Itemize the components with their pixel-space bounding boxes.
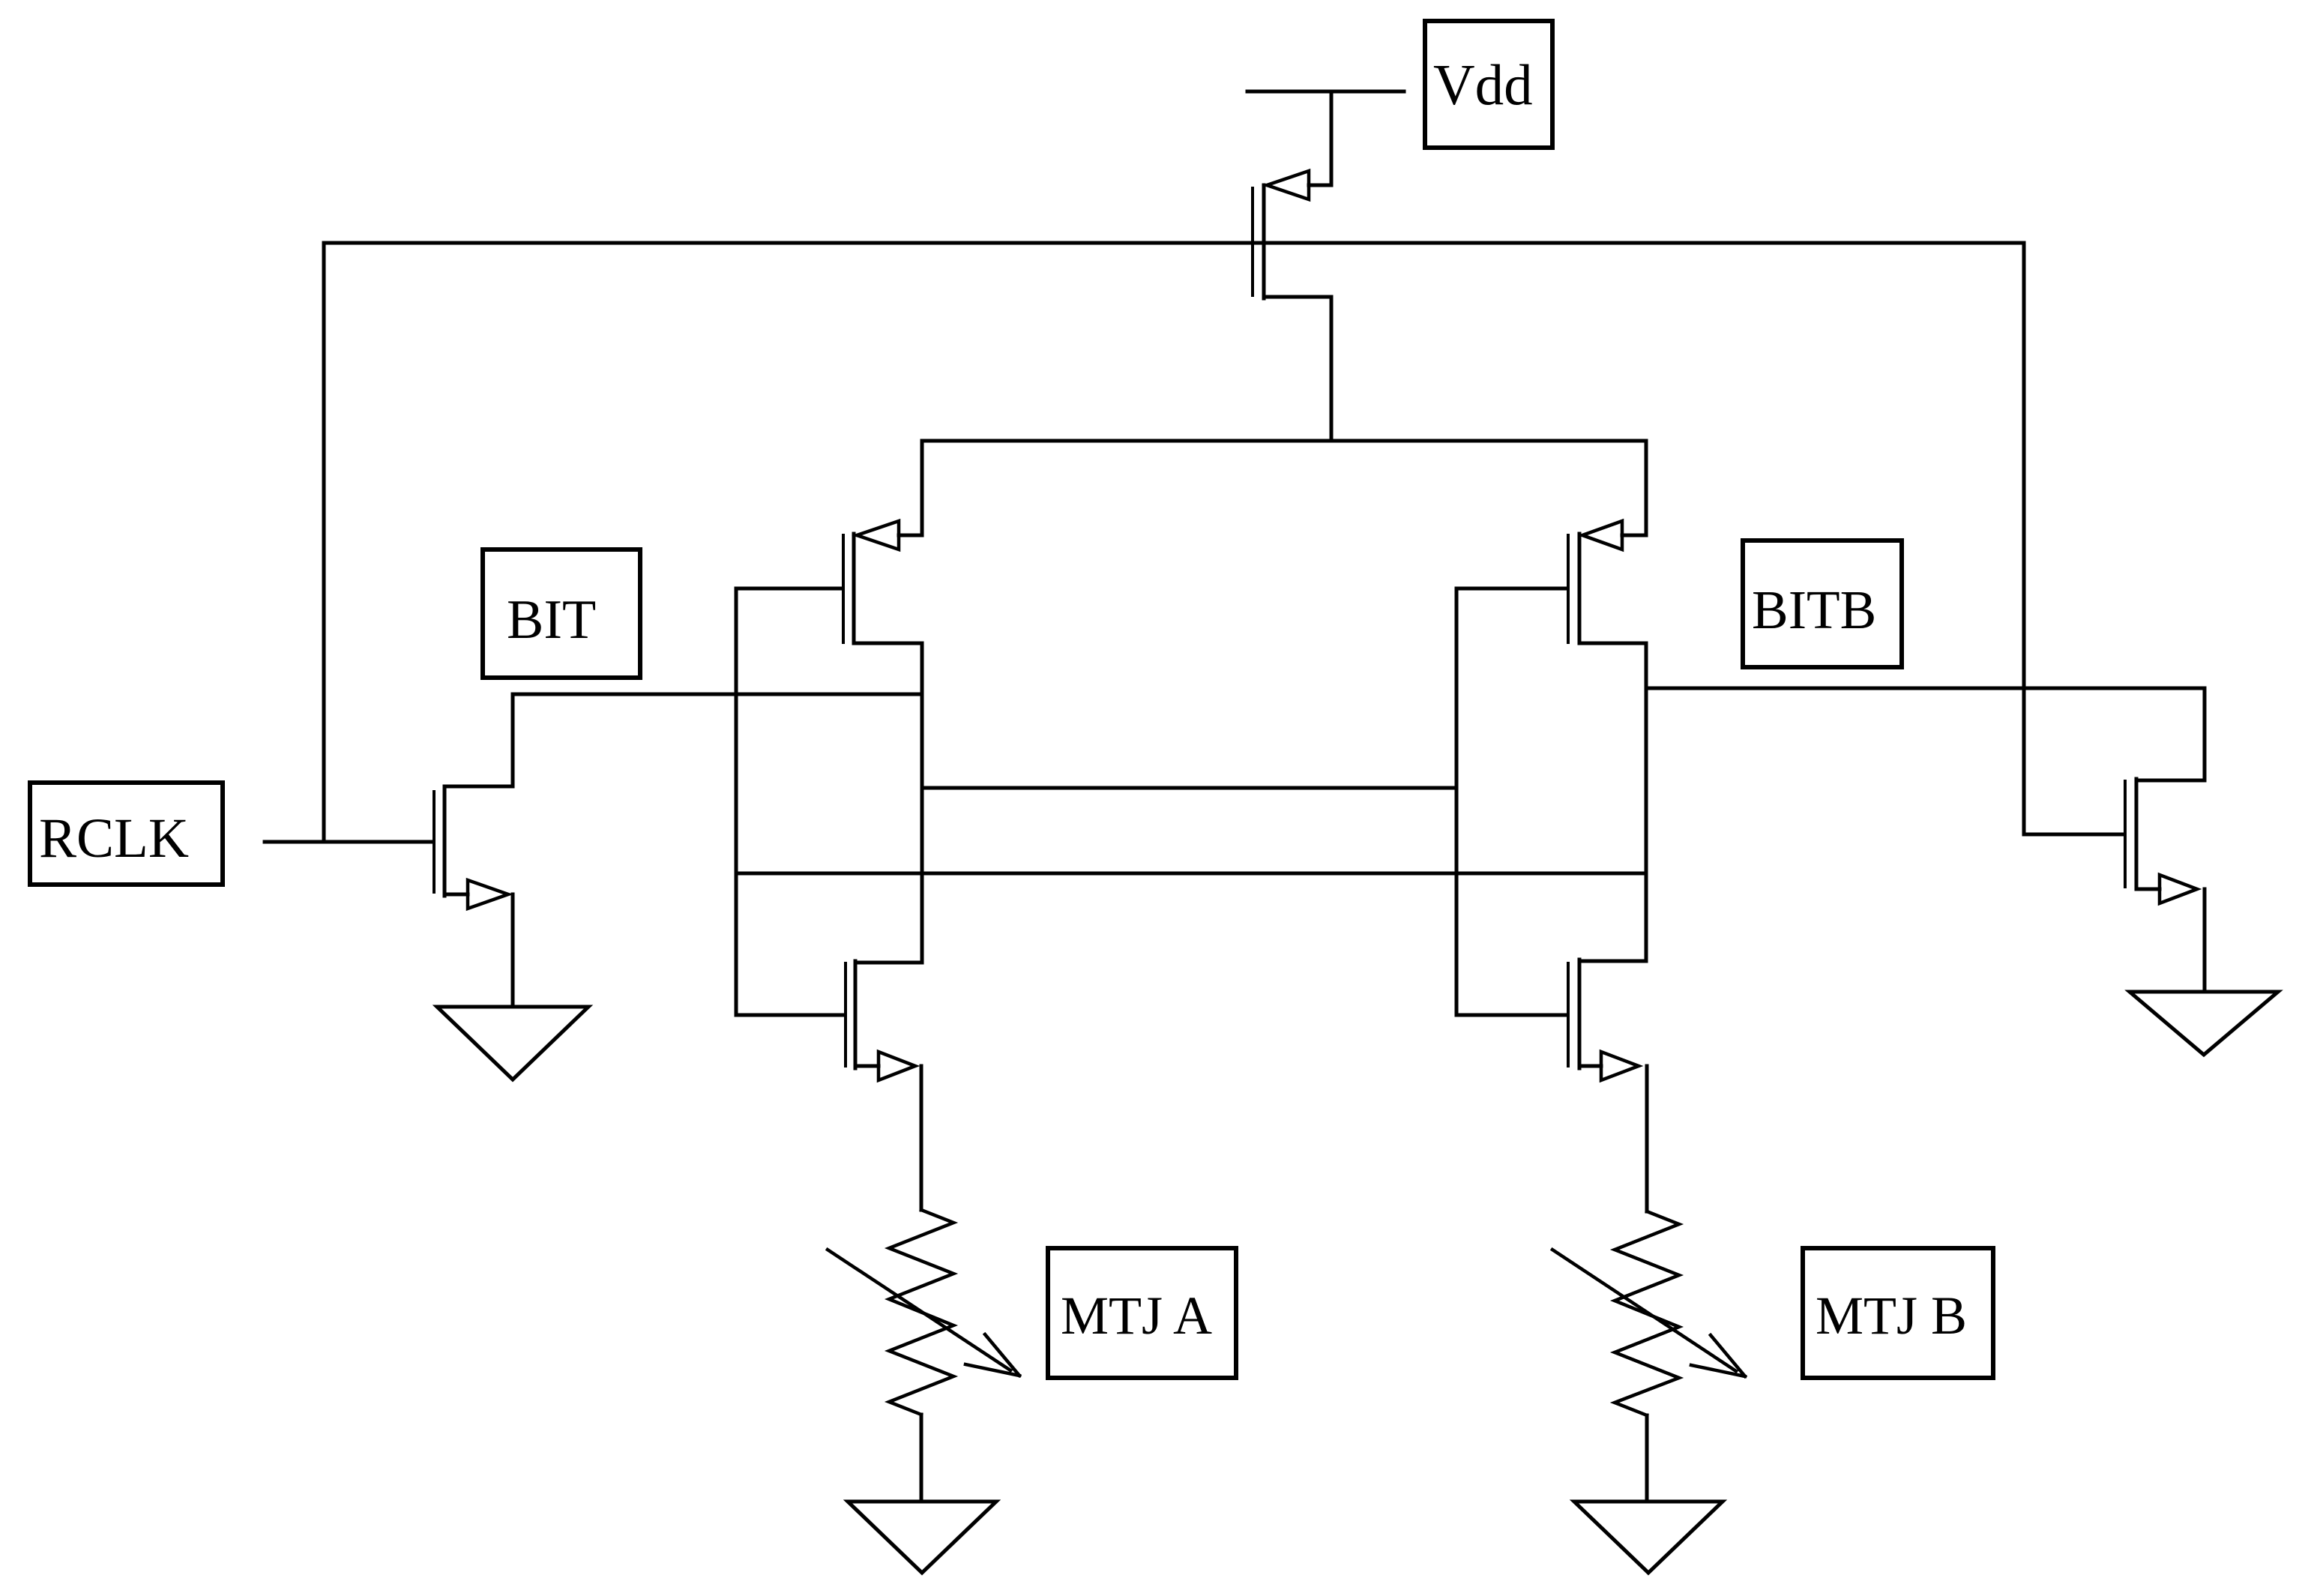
transistor M2 pmos drain lead <box>1579 642 1646 645</box>
wire right cross-couple vertical <box>1455 588 1459 1015</box>
transistor M4 nmos drain lead <box>1579 960 1646 963</box>
node BIT label box <box>483 549 640 678</box>
wire MTJ B to ground <box>1645 1415 1649 1502</box>
transistor M4 nmos source arrow <box>1601 1052 1639 1080</box>
wire latch lower cross link <box>736 872 1646 876</box>
wire M6 source to ground <box>2203 889 2207 992</box>
transistor M1 pmos source lead <box>899 441 922 535</box>
transistor M4 nmos source lead <box>1579 1064 1601 1068</box>
ground below MTJ A <box>848 1502 996 1573</box>
arrow across MTJ B <box>1552 1250 1745 1376</box>
transistor M3 nmos source lead <box>855 1064 879 1068</box>
ground below MTJ B <box>1574 1502 1723 1573</box>
transistor M4 nmos gate bar <box>1567 963 1570 1066</box>
svg-text:MTJ A: MTJ A <box>1061 1286 1212 1346</box>
svg-text:BITB: BITB <box>1752 579 1876 640</box>
transistor M4 nmos channel <box>1578 960 1582 1068</box>
transistor M6 nmos source arrow <box>2160 875 2197 903</box>
wire M0 source to ground <box>511 894 515 1007</box>
wire gate bus from M5 to RCLK and right leg <box>324 241 2024 245</box>
transistor M2 pmos source arrow <box>1582 521 1622 549</box>
wire BIT node <box>513 693 922 696</box>
transistor M6 nmos source lead <box>2136 888 2160 891</box>
transistor M0 nmos source arrow <box>468 880 508 909</box>
transistor M3 nmos gate wire <box>736 1014 844 1017</box>
transistor M1 pmos source arrow <box>857 521 899 549</box>
wire left vertical drop <box>322 243 326 842</box>
node RCLK label box <box>30 783 223 885</box>
transistor M4 nmos gate wire <box>1456 1014 1567 1017</box>
transistor M2 pmos source lead <box>1622 441 1646 535</box>
svg-text:RCLK: RCLK <box>39 807 189 870</box>
wire Vdd bus <box>922 439 1646 443</box>
transistor M3 nmos gate bar <box>844 963 847 1066</box>
transistor M5 pmos source lead <box>1309 91 1331 185</box>
svg-text:Vdd: Vdd <box>1433 52 1533 117</box>
node MTJ A label box <box>1048 1248 1236 1378</box>
wire MTJ A to ground <box>920 1415 923 1502</box>
wire BITB node <box>1646 687 2205 690</box>
wire M4 source down to MTJ B <box>1645 1066 1649 1211</box>
wire Vdd rail stub <box>1247 90 1404 94</box>
resistor MTJ B zigzag <box>1615 1211 1679 1415</box>
svg-text:MTJ B: MTJ B <box>1816 1286 1967 1346</box>
transistor M0 nmos source lead <box>445 893 468 897</box>
transistor M2 pmos gate wire <box>1456 587 1567 591</box>
resistor MTJ A zigzag <box>889 1210 953 1415</box>
transistor M2 pmos gate bar <box>1567 535 1570 642</box>
transistor M1 pmos gate wire <box>736 587 842 591</box>
transistor M1 pmos drain lead <box>854 642 922 645</box>
node MTJ B label box <box>1803 1248 1993 1378</box>
svg-text:BIT: BIT <box>507 589 596 651</box>
transistor M5 pmos drain lead <box>1264 297 1331 441</box>
transistor M0 nmos channel <box>443 786 447 896</box>
wire left cross-couple vertical <box>735 588 738 1015</box>
wire M3 source down to MTJ A <box>920 1066 923 1210</box>
node right latch vertical <box>1645 643 1648 961</box>
node Vdd label box <box>1425 21 1552 148</box>
transistor M3 nmos source arrow <box>879 1052 915 1080</box>
transistor M6 nmos channel <box>2135 779 2139 889</box>
transistor M2 pmos channel <box>1578 534 1582 643</box>
wire BIT jog to M0 drain <box>445 694 513 786</box>
transistor M6 nmos gate bar <box>2124 781 2127 887</box>
transistor M3 nmos drain lead <box>855 961 922 965</box>
ground below M0 <box>437 1007 588 1079</box>
arrow across MTJ A <box>828 1250 1019 1376</box>
transistor M6 nmos gate wire <box>2024 833 2124 837</box>
transistor M3 nmos channel <box>854 961 858 1068</box>
node BITB label box <box>1743 540 1902 667</box>
transistor M5 pmos channel <box>1262 185 1266 298</box>
wire latch upper cross link <box>922 786 1456 790</box>
transistor M0 nmos gate bar <box>433 792 436 892</box>
ground below M6 <box>2130 992 2278 1055</box>
wire right vertical drop <box>2022 243 2026 834</box>
transistor M6 nmos drain lead <box>2136 688 2205 780</box>
node left latch vertical <box>921 643 924 963</box>
transistor M5 pmos gate bar <box>1251 188 1254 295</box>
transistor M0 nmos gate wire <box>265 840 433 844</box>
transistor M1 pmos gate bar <box>842 535 845 642</box>
transistor M5 pmos source arrow <box>1267 171 1309 199</box>
transistor M1 pmos channel <box>852 534 856 643</box>
